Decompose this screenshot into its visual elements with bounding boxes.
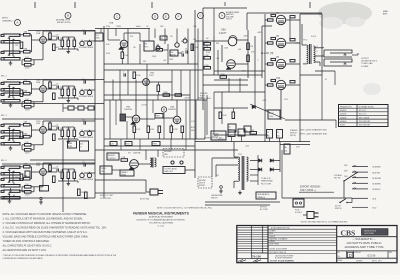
wire top stub 5 xyxy=(224,2,226,6)
input jack J2B xyxy=(4,93,20,95)
box ch4 left xyxy=(25,171,30,177)
transformer reverb drive xyxy=(150,158,152,167)
title text xyxy=(337,236,397,238)
wire grid bias trunk xyxy=(280,90,282,120)
wire plate up xyxy=(42,121,44,127)
pot VOLUME xyxy=(80,173,84,177)
ground line out xyxy=(9,199,11,201)
tone stack resistors xyxy=(61,89,64,96)
wire trunk x95 xyxy=(94,30,96,198)
wire v5a net xyxy=(100,29,102,34)
wire cap drops xyxy=(231,137,233,142)
rectifier diode D4 xyxy=(270,168,273,172)
resistor 470 screen bus b xyxy=(290,39,295,41)
resistor 820 ch2 xyxy=(53,93,56,100)
resistor 1.5K cathode xyxy=(25,59,32,62)
wire row3 top bus xyxy=(104,99,205,101)
CBS address box xyxy=(362,229,389,236)
resistor 220K r3 xyxy=(181,126,184,133)
resistor 100K plate xyxy=(49,33,52,40)
wire v5b link xyxy=(104,81,143,83)
box ground switch export upper xyxy=(211,131,226,140)
wire plate bus xyxy=(43,162,95,164)
capacitor 25/25 cathode bypass xyxy=(25,191,32,194)
ground input pair xyxy=(10,61,12,63)
ground tone xyxy=(67,182,69,184)
wire bias row xyxy=(265,109,281,111)
resistor 220K bias a xyxy=(219,112,222,119)
circled M node xyxy=(161,107,166,112)
speaker jack ext xyxy=(324,59,352,62)
node A callout xyxy=(15,20,21,26)
AC plug xyxy=(307,212,314,219)
wire row3 links xyxy=(140,118,155,120)
resistor screen V8 xyxy=(268,42,274,44)
box PRESENT control xyxy=(155,114,163,119)
capacitor coupling .02 xyxy=(56,36,58,39)
box heater fuse b xyxy=(80,141,89,151)
wire bias bottom xyxy=(214,134,268,136)
ground tone xyxy=(67,140,69,142)
size and dwg no row xyxy=(337,250,397,252)
resistor 220K bias b xyxy=(232,112,235,119)
capacitor bright 120pF xyxy=(83,31,85,34)
wire PI trunk x203 xyxy=(202,8,204,110)
box cap 20-450 b xyxy=(277,130,283,139)
wire PI vertical d xyxy=(217,50,219,75)
wire PI trunk x248 xyxy=(247,30,249,78)
wire grid join xyxy=(19,82,24,84)
capacitor bright 120pF xyxy=(83,163,85,166)
resistor 820 ch4 xyxy=(53,176,56,183)
wire trem links xyxy=(178,52,182,54)
resistor 220K mid xyxy=(133,72,136,79)
wire channel buses xyxy=(28,30,95,32)
wire y70 bus xyxy=(104,69,203,71)
input jack J4B xyxy=(4,178,20,180)
wire channel out xyxy=(77,181,79,183)
revision table xyxy=(267,226,269,263)
wire NFB xyxy=(352,54,358,56)
resistor 68K grid 3A xyxy=(24,123,31,126)
pot VOLUME xyxy=(80,131,84,135)
box ST switch xyxy=(40,186,49,192)
speaker jack main xyxy=(324,50,352,53)
wire screen trunk xyxy=(264,14,266,92)
box hum balance xyxy=(256,192,276,199)
wire heater bus xyxy=(280,144,310,146)
wire row3 bottom xyxy=(104,138,205,140)
wire trunk x63 xyxy=(62,140,64,212)
wire tubes right bus xyxy=(289,17,291,40)
wire trunk x104 xyxy=(103,26,105,198)
box trem depth xyxy=(170,50,178,56)
wire PI vertical c xyxy=(221,45,223,62)
wire grid join xyxy=(19,166,24,168)
capacitor .1-600 xyxy=(244,126,251,132)
wire long trunk x147 xyxy=(146,64,148,100)
wire rectifier xyxy=(250,160,260,162)
wire PI trunk x262 xyxy=(261,26,263,78)
wire PI out upper xyxy=(237,39,248,41)
box tremolo osc xyxy=(100,166,112,174)
wire top stub 3 xyxy=(151,2,153,8)
resistor 1.5K v6b cathode xyxy=(133,126,136,133)
input jack J1A xyxy=(4,34,20,36)
wire plate bus xyxy=(43,79,95,81)
selector taps xyxy=(352,166,368,168)
wire jack interconnect xyxy=(9,128,11,140)
resistor 68K grid 2A xyxy=(24,81,31,84)
resistor 100K plate xyxy=(49,165,52,172)
wire PI trunk x255 xyxy=(254,36,256,78)
capacitor trem .01 xyxy=(185,50,187,53)
pot trem speed xyxy=(156,46,160,50)
resistor 2.2K supply xyxy=(250,132,257,135)
dark connector block xyxy=(120,114,126,121)
footswitch plug xyxy=(150,189,158,195)
wire jack interconnect xyxy=(9,86,11,97)
node E callout xyxy=(163,14,169,20)
node C callout xyxy=(114,14,120,20)
wire channel out xyxy=(77,98,79,100)
wire feedback top xyxy=(247,12,322,14)
wire mixer bottom bus xyxy=(104,63,198,65)
resistor 330K tail2 xyxy=(220,76,227,79)
wire V10 to supply xyxy=(264,92,266,142)
input jack J2A xyxy=(4,82,20,84)
pot mixer level xyxy=(175,43,179,47)
rectifier diode D3 xyxy=(259,168,262,172)
wire rect mid xyxy=(257,155,259,185)
box vibrato speed xyxy=(120,170,134,176)
wire heater row xyxy=(104,145,195,147)
footswitch jack stub xyxy=(206,95,208,135)
resistor 5.6K xyxy=(147,126,150,133)
triode V6B phase inverter lower xyxy=(227,60,236,69)
node H callout xyxy=(219,13,225,19)
wire plate up xyxy=(42,163,44,169)
resistor 330K PI xyxy=(204,43,211,46)
resistor grid V10 xyxy=(271,79,276,81)
wire top stub 2 xyxy=(74,2,76,8)
pot VOLUME xyxy=(80,41,84,45)
wire cathode xyxy=(42,92,44,101)
wire x222 extend xyxy=(221,92,223,124)
input jack J3B xyxy=(4,136,20,138)
resistor 330K mix a xyxy=(163,94,170,97)
AC socket xyxy=(293,199,304,207)
resistor 100K plate xyxy=(49,123,52,130)
pot TREBLE xyxy=(87,173,91,177)
title block frame xyxy=(237,226,397,263)
capacitor 25/25 cathode bypass xyxy=(25,106,32,109)
wire bottom PI bus xyxy=(203,74,262,76)
wire right down x322 xyxy=(321,75,323,120)
wire footswitch bus xyxy=(95,192,146,194)
resistor 1500 v5a cathode xyxy=(121,52,124,59)
wire PI trunk x195 xyxy=(194,10,196,150)
wire mains bottom xyxy=(347,202,352,204)
box cap 20uF xyxy=(238,129,245,136)
box coupler xyxy=(160,36,167,40)
wire HT bus xyxy=(195,141,310,143)
wire channel out xyxy=(77,49,79,51)
wire ch2 tail xyxy=(63,107,68,109)
size letter D xyxy=(347,252,353,257)
wire lower bus xyxy=(95,179,146,181)
wire row3 verticals xyxy=(109,100,111,139)
ground input pair xyxy=(10,103,12,105)
wire mains runs xyxy=(282,197,352,199)
wire grid to tube xyxy=(32,88,40,90)
wire NFB return xyxy=(300,74,322,76)
wire plate up xyxy=(42,80,44,86)
wire reverb return xyxy=(185,169,195,171)
tone stack resistors xyxy=(61,40,64,47)
resistor 100K plate xyxy=(49,82,52,89)
wire grid to tube xyxy=(32,129,40,131)
capacitor bright 120pF xyxy=(83,80,85,83)
resistor grid V8 xyxy=(271,37,276,39)
resistor screen V9 xyxy=(268,63,274,65)
resistor grid V9 xyxy=(271,58,276,60)
wire output vertical xyxy=(299,20,301,85)
resistor 1M grid leak xyxy=(20,174,23,181)
wire plate V7 xyxy=(286,19,300,21)
resistor 1.5K cathode xyxy=(25,144,32,147)
wire grid to tube xyxy=(32,39,40,41)
resistor 100K v5b plate xyxy=(157,85,160,92)
box heater c xyxy=(152,142,160,146)
wire plate up xyxy=(42,31,44,37)
box heater fuse a xyxy=(68,141,77,148)
wire long trunk x198b xyxy=(197,64,199,100)
wire feedback top h xyxy=(203,7,247,9)
node D callout xyxy=(152,14,158,20)
resistor screen V10 xyxy=(268,84,274,86)
ground ch4 xyxy=(40,200,42,202)
wire cathode xyxy=(42,43,44,59)
pot trem intensity xyxy=(183,39,187,43)
box heater b xyxy=(125,142,132,146)
ground input pair xyxy=(10,188,12,190)
wire PI vertical a xyxy=(202,41,204,69)
input jack J4A xyxy=(4,166,20,168)
resistor ch2 tail a xyxy=(68,106,74,110)
box volume ch1 xyxy=(95,33,103,41)
wire plate bus xyxy=(43,30,95,32)
wire top stub 1 xyxy=(34,2,36,8)
capacitor coupling .02 xyxy=(56,126,58,129)
wire PI vertical b xyxy=(213,36,215,75)
wire supply bottom xyxy=(205,201,280,203)
resistor 68K grid 2B xyxy=(24,92,31,95)
box REVERB PAN dashed xyxy=(163,149,184,158)
ground tone xyxy=(67,50,69,52)
resistor 47K grid b xyxy=(247,55,250,62)
resistor 3.3M PI xyxy=(204,57,211,60)
wire y95 bus xyxy=(104,94,190,96)
resistor screen V7 xyxy=(268,19,274,21)
resistor 68K grid 1B xyxy=(24,50,31,53)
resistor 68K grid 3B xyxy=(24,135,31,138)
box reverb control xyxy=(107,153,119,160)
capacitor coupling .02 xyxy=(56,85,58,88)
resistor 68K grid 4B xyxy=(24,177,31,180)
switch S2 power xyxy=(340,199,346,203)
input jack line out xyxy=(4,190,20,192)
wire mid verticals xyxy=(112,80,114,101)
ground input pair xyxy=(10,146,12,148)
wire plate V9 xyxy=(286,63,300,65)
wire bias diag xyxy=(250,104,285,119)
wire PI bus xyxy=(195,40,228,42)
wire heater drops xyxy=(120,139,122,150)
wire plate V8 xyxy=(286,42,300,44)
ground tone xyxy=(67,99,69,101)
wire speaker feed xyxy=(315,47,324,49)
resistor 820 ch3 xyxy=(53,134,56,141)
wire mixer verticals xyxy=(127,29,129,65)
wire PI feed row2 xyxy=(203,84,248,86)
resistor 220K ch4 b xyxy=(85,192,88,199)
capacitor coupling .02 xyxy=(56,168,58,171)
wire long trunk x158 xyxy=(157,95,159,100)
pot TREBLE xyxy=(87,90,91,94)
wire grid to tube xyxy=(32,171,40,173)
table voltage chart xyxy=(339,105,389,127)
wire cathode xyxy=(42,133,44,144)
scan smudge top right xyxy=(318,2,372,24)
wire y92 bus xyxy=(214,91,265,93)
capacitor 25/25 cathode bypass xyxy=(25,149,32,152)
wire plate trunk down xyxy=(299,85,301,142)
wire right bus y120 xyxy=(285,119,336,121)
wire PI out lower xyxy=(235,63,248,65)
rectifier diode D2 xyxy=(270,159,273,163)
node F callout xyxy=(176,14,182,20)
resistor 1M grid leak xyxy=(20,90,23,97)
box ground switch export xyxy=(198,177,212,188)
photocopy noise xyxy=(0,0,1,1)
node G callout xyxy=(198,13,204,19)
wire long trunk x205 xyxy=(204,100,206,139)
wire line out xyxy=(9,194,11,199)
ground hum xyxy=(220,189,222,191)
resistor 47K grid a xyxy=(247,43,250,50)
wire jack interconnect xyxy=(9,170,11,182)
resistor ch2 tail c xyxy=(88,106,94,110)
voltage selector switch xyxy=(344,172,358,181)
tone stack resistors xyxy=(61,172,64,179)
pot VOLUME xyxy=(80,90,84,94)
wire sel trunk xyxy=(343,181,345,198)
resistor 68K grid 1A xyxy=(24,33,31,36)
box cap .1 600V xyxy=(228,130,235,137)
rectifier diode D1 xyxy=(259,159,262,163)
wire bias mid xyxy=(214,107,248,109)
wire y71 bus xyxy=(214,70,265,72)
wire trem link xyxy=(112,169,120,171)
resistor 220K ch4 a xyxy=(78,189,81,196)
box trem intensity xyxy=(144,41,154,51)
resistor 470 screen bus a xyxy=(290,16,295,18)
wire plate V10 xyxy=(286,84,300,86)
input jack J1B xyxy=(4,51,20,53)
input jack J3A xyxy=(4,124,20,126)
scale row xyxy=(337,257,397,259)
wire top stub 4 xyxy=(309,2,311,8)
box output jacks label xyxy=(163,167,185,174)
wire x214 extend xyxy=(213,92,215,135)
RCA plug 2 xyxy=(180,161,183,164)
resistor grid V7 xyxy=(271,14,276,16)
wire footswitch xyxy=(145,180,147,192)
resistor 68K grid 4A xyxy=(24,165,31,168)
resistor 1.5K cathode xyxy=(25,186,32,189)
box bias rect xyxy=(268,110,280,119)
centre field column xyxy=(336,226,338,263)
resistor 2.2M xyxy=(170,126,173,133)
pot TREBLE xyxy=(87,131,91,135)
wire cathode xyxy=(42,175,44,186)
resistor trem 100K xyxy=(191,44,194,51)
wire feedback drop x214 xyxy=(213,8,215,36)
resistor 4.7M xyxy=(156,49,163,52)
resistor 1M grid leak xyxy=(20,42,23,49)
resistor 820 ch1 xyxy=(53,44,56,51)
resistor 470 screen bus d xyxy=(290,81,295,83)
box cap 20-450 a xyxy=(267,130,273,139)
capacitor bright 120pF xyxy=(83,121,85,124)
capacitor 25/25 cathode bypass xyxy=(25,64,32,67)
pot TREBLE xyxy=(87,41,91,45)
resistor 1M grid leak xyxy=(20,132,23,139)
ground TR1 xyxy=(239,191,241,193)
capacitor .1 mid xyxy=(123,73,125,76)
wire reverb to pan xyxy=(138,163,150,165)
resistor 100K PI tail xyxy=(204,67,211,70)
box heater a xyxy=(110,142,117,146)
resistor 1.5K PI xyxy=(204,48,211,51)
resistor 470K r3 xyxy=(158,126,161,133)
wire grid join xyxy=(19,124,24,126)
resistor 1.5K cathode xyxy=(25,101,32,104)
node B callout xyxy=(65,13,71,19)
wire TR1 sec taps xyxy=(250,174,258,176)
wire grid trunk xyxy=(262,25,272,27)
RCA plug 1 xyxy=(171,161,174,164)
wire x255 extend xyxy=(254,78,256,108)
wire jack interconnect xyxy=(9,38,11,55)
wire y80 bus xyxy=(214,79,248,81)
resistor ch2 tail b xyxy=(78,106,84,110)
scan smudge right middle xyxy=(363,83,381,95)
resistor 330K mix b xyxy=(175,94,182,97)
diode bias xyxy=(252,105,255,109)
wire right trunk x322 xyxy=(321,44,323,75)
capacitor .047 xyxy=(181,53,183,56)
resistor 470 screen bus c xyxy=(290,60,295,62)
capacitor 40-750 a xyxy=(228,124,236,132)
wire OT box xyxy=(300,14,322,44)
wire mixer top bus xyxy=(95,28,150,30)
wire reverb bus xyxy=(95,149,238,151)
box fuse 4A 250 xyxy=(284,144,290,154)
wire supply left xyxy=(212,157,238,159)
resistor 2.2K reverb xyxy=(121,159,128,162)
